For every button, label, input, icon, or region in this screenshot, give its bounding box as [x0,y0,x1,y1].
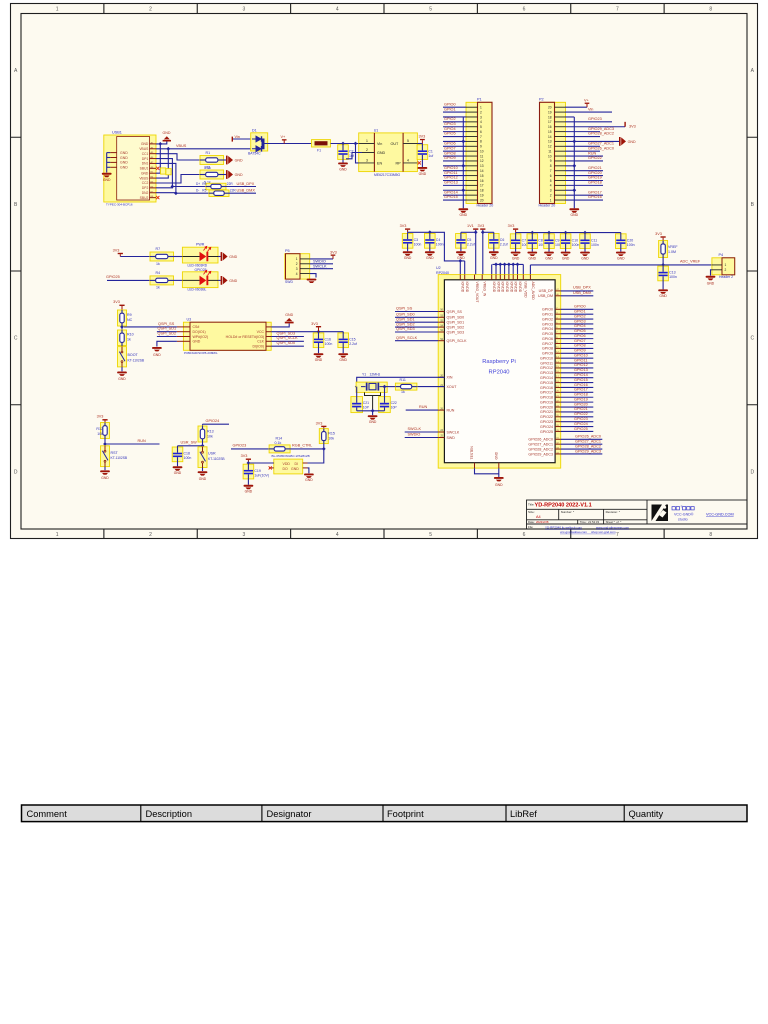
svg-text:4: 4 [550,184,552,188]
pin GPIO23 wire [555,421,561,423]
svg-text:11: 11 [480,154,484,158]
svg-text:13: 13 [548,140,552,144]
svg-text:F1: F1 [317,149,321,153]
svg-text:11: 11 [548,149,552,153]
svg-text:C: C [750,336,754,342]
svg-text:7: 7 [616,532,619,538]
wire RUN at U2 [406,409,439,411]
wire P2 gnd bus [573,117,575,208]
svg-text:2.2uf: 2.2uf [500,243,508,247]
svg-text:19: 19 [548,110,552,114]
svg-text:1k: 1k [156,286,160,290]
wire DN1/DN2 join to R5 [156,163,176,192]
svg-text:8: 8 [709,532,712,538]
pin stubs U1 [359,144,418,163]
wire IOVDD drop [491,264,493,274]
svg-text:GPIO12: GPIO12 [540,366,553,370]
wire IOVDD drop [508,264,510,274]
svg-text:C21: C21 [363,401,369,405]
svg-text:GND: GND [494,451,498,459]
svg-text:GND: GND [153,353,161,357]
svg-text:VREF: VREF [668,245,678,249]
pin GPIO18 wire [555,396,561,398]
svg-text:GND: GND [245,490,253,494]
svg-text:U2: U2 [436,266,441,270]
svg-text:R14: R14 [276,437,283,441]
ground at USB1 top [156,142,167,144]
svg-text:GND: GND [120,161,128,165]
wire P1 pin 5 [443,126,466,128]
pin IOVDD [464,275,466,280]
wire crystal case gnd [365,392,381,410]
header P1 [466,102,492,203]
svg-text:GND: GND [562,256,570,260]
ground arrow R2 [226,170,228,179]
wire P2 pin 13 gnd [565,140,619,142]
svg-text:Footprint: Footprint [387,809,424,819]
svg-text:GND: GND [118,377,126,381]
svg-text:vcc-gnd.taobao.com shop.vc: vcc-gnd.taobao.com shop.vcc-gnd.com [560,530,616,534]
svg-text:USB_DMX: USB_DMX [573,291,592,295]
svg-text:C20: C20 [627,238,633,242]
wire QSPI_SD3 at U2 [395,331,438,333]
wire PWR led to gnd [218,256,221,258]
svg-text:GND: GND [199,477,207,481]
svg-text:GPIO8: GPIO8 [574,344,586,348]
resistor R12 [101,423,110,439]
svg-text:5: 5 [550,179,552,183]
svg-text:QSPI_SD3: QSPI_SD3 [396,327,415,331]
svg-text:1k: 1k [156,262,160,266]
svg-text:GPIO13: GPIO13 [444,181,458,185]
wire P2 pin 5 [565,179,603,181]
svg-text:R3: R3 [202,182,206,186]
wire QSPI_SD3 from U3 [271,336,304,338]
svg-text:GPIO9: GPIO9 [574,349,586,353]
wire USB_DPX [226,186,256,188]
pin IOVDD [495,275,497,280]
svg-text:GPIO12: GPIO12 [574,363,588,367]
pin GPIO4 wire [555,328,561,330]
capacitor C9 [544,234,555,249]
svg-text:1: 1 [56,532,59,538]
svg-text:C3: C3 [414,238,419,242]
svg-text:VBUS: VBUS [139,147,149,151]
svg-text:1k: 1k [127,338,131,342]
wire P1 pin 18 [443,189,466,191]
svg-text:Date:: Date: [528,520,535,524]
svg-text:GPIO13: GPIO13 [574,368,588,372]
svg-text:GPIO22: GPIO22 [588,156,602,160]
svg-text:6: 6 [523,532,526,538]
svg-text:GND: GND [426,256,434,260]
svg-text:3: 3 [296,267,298,271]
wire led to gnd [218,279,221,281]
wire QSPI_SD0 from U3 [271,345,304,347]
svg-text:GPIO15: GPIO15 [444,195,458,199]
svg-text:Y1: Y1 [362,373,366,377]
svg-text:3V3: 3V3 [508,224,515,228]
svg-text:10P: 10P [363,405,370,409]
svg-text:100n: 100n [572,243,580,247]
capacitor C13 [658,266,669,281]
svg-text:IOVDD: IOVDD [505,282,509,293]
svg-text:GPIO22: GPIO22 [574,412,588,416]
svg-text:GPIO20: GPIO20 [574,402,588,406]
svg-text:DP2: DP2 [142,186,149,190]
svg-text:RP2040: RP2040 [489,370,510,376]
svg-text:GND: GND [377,151,386,155]
capacitor C10 [560,234,571,249]
svg-text:RP: RP [396,161,402,165]
wire R7 to PWR led [174,256,183,258]
sheet background [11,4,758,539]
svg-text:VBUS: VBUS [176,144,187,148]
wire QSPI_SS at U2 [395,311,438,313]
svg-text:QSPI_SD1: QSPI_SD1 [158,327,177,331]
svg-text:GPIO23: GPIO23 [574,417,588,421]
wire TESTEN to gnd [475,468,499,474]
svg-text:SWD: SWD [447,436,456,440]
power port 3V3 at U1 out [420,139,425,140]
svg-text:GPIO24: GPIO24 [574,422,588,426]
svg-text:5: 5 [480,125,482,129]
svg-text:GPIO13: GPIO13 [540,371,553,375]
pin GPIO25 wire [555,430,561,432]
svg-text:LibRef: LibRef [510,809,537,819]
wire U3 gnd pin [157,341,177,346]
svg-text:9: 9 [480,145,482,149]
wire P2 pin 8 gnd [565,165,574,167]
pin U3 right 346.2 [266,345,271,347]
svg-text:GPIO28_ADC2: GPIO28_ADC2 [588,132,614,136]
capacitor C15 [342,332,344,333]
wire R10 to BOOT [121,346,123,347]
wire P2 pin 3 gnd [565,189,574,191]
wire USR_SW node [202,442,204,447]
svg-text:C13: C13 [669,271,675,275]
svg-text:2: 2 [725,268,727,272]
wire U1 GND pin [346,153,362,159]
USB-C connector USB1 [104,135,156,202]
svg-text:2: 2 [550,193,552,197]
svg-text:16: 16 [548,125,552,129]
svg-text:SWCLK: SWCLK [408,427,422,431]
pin U3 GND [177,340,190,342]
svg-text:QSPI_SCLK: QSPI_SCLK [277,336,299,340]
svg-text:1: 1 [725,263,727,267]
svg-text:SWDIO: SWDIO [313,260,326,264]
svg-text:GPIO26_ADC0: GPIO26_ADC0 [588,146,614,150]
wire RST gnd [104,467,106,471]
wire RGB_CTRL [290,448,324,450]
svg-text:GPIO6: GPIO6 [574,334,586,338]
wire USR gnd [202,468,204,472]
svg-text:GND: GND [581,256,589,260]
pin USB_DP wire [555,290,561,292]
svg-text:3V3: 3V3 [311,322,318,326]
svg-text:V+: V+ [281,135,287,139]
pin QSPI_SD0 [438,316,444,318]
svg-text:GND: GND [229,255,237,259]
svg-text:LED-0603BL: LED-0603BL [188,288,207,292]
pin QSPI_SCLK [438,340,444,342]
svg-text:VCC-GND®: VCC-GND® [674,513,694,517]
svg-text:10P: 10P [391,405,398,409]
wire P1 pin 7 [443,136,466,138]
ground P2 bus [569,208,579,210]
svg-text:GND: GND [512,256,520,260]
resistor R14 [269,445,290,453]
svg-text:100n: 100n [669,275,677,279]
pin GPIO19 wire [555,401,561,403]
header P2 [540,102,566,203]
led PWR [182,247,218,263]
pin GPIO6 wire [555,338,561,340]
svg-text:100n: 100n [591,243,599,247]
pin GPIO29_ADC3 wire [555,453,561,455]
capacitor C22 right [379,397,391,413]
resistor R7 [150,252,174,261]
wire P2 pin 12 [565,145,600,147]
ground arrow GPIO25 led [221,276,223,285]
svg-text:R9: R9 [127,313,132,317]
resistor R3 [206,183,226,190]
svg-text:R10: R10 [127,333,134,337]
wire 3V3 bus C3 C4 [408,232,465,261]
ground USR [198,471,208,473]
capacitor C2 at U1 input [338,145,349,160]
svg-text:Header 20: Header 20 [539,204,556,208]
wire SWCLK [405,431,439,433]
svg-text:VREG_VOUT: VREG_VOUT [475,282,479,303]
title block [527,500,748,529]
svg-text:KT-1102SB: KT-1102SB [128,358,145,362]
svg-text:KT-1102SB: KT-1102SB [111,456,128,460]
svg-text:GPIO29_ADC3: GPIO29_ADC3 [575,449,601,453]
svg-text:GPIO18: GPIO18 [588,181,602,185]
crystal Y1 12MHz [356,382,387,392]
svg-text:GPIO24: GPIO24 [540,425,553,429]
svg-text:R4: R4 [156,271,161,275]
svg-text:3V3: 3V3 [113,248,120,252]
svg-text:19: 19 [480,193,484,197]
wire 3V3 bus right caps [516,232,621,234]
svg-text:6: 6 [550,174,552,178]
capacitor C19 [243,464,254,479]
svg-text:D: D [14,469,18,475]
svg-text:GPIO27_ADC1: GPIO27_ADC1 [575,439,601,443]
svg-text:GPIO16: GPIO16 [588,195,602,199]
svg-text:GPIO18: GPIO18 [540,396,553,400]
pin SWD [438,437,444,439]
svg-text:14: 14 [548,135,552,139]
svg-text:12MHz: 12MHz [370,373,381,377]
power port 3V3 at C7 [513,228,518,229]
wire P5 pin1 3V3 [310,258,333,260]
svg-text:USB_DMX: USB_DMX [237,189,256,193]
wire RGB gnd [308,468,309,473]
svg-text:ME6217C33M5G: ME6217C33M5G [374,173,401,177]
wire CC2 to R2 [156,175,200,184]
wire R1 to gnd [224,159,227,161]
svg-text:YD-RP2040.jlc.wellpcb.com: YD-RP2040.jlc.wellpcb.com [545,525,583,529]
svg-text:R13: R13 [207,429,214,433]
svg-text:GPIO26_ADC0: GPIO26_ADC0 [575,435,601,439]
svg-text:GPIO15: GPIO15 [574,378,588,382]
svg-text:GPIO21: GPIO21 [540,410,553,414]
svg-text:2: 2 [480,110,482,114]
wire SWDIO [405,437,439,439]
svg-text:Vin: Vin [377,142,382,146]
svg-text:GND: GND [315,358,323,362]
svg-text:Raspberry Pi: Raspberry Pi [482,359,516,365]
power port Vin [232,137,233,142]
mcu U2 RP2040 [438,275,561,469]
pin GPIO17 wire [555,391,561,393]
power port V+ [282,139,287,140]
flash U3 W25Q [183,322,271,350]
svg-text:Header 20: Header 20 [477,204,494,208]
resistor R13 [202,424,204,426]
svg-text:14: 14 [480,169,484,173]
svg-text:SBU1: SBU1 [140,167,149,171]
pin GPIO1 wire [555,313,561,315]
svg-text:C19: C19 [254,469,260,473]
wire P1 pin 8 [443,140,466,142]
pin IOVDD [504,275,506,280]
svg-text:QSPI_SD3: QSPI_SD3 [447,330,465,334]
logo texts [672,507,694,510]
pin GPIO11 wire [555,362,561,364]
svg-text:1: 1 [480,106,482,110]
svg-text:P1: P1 [477,98,482,102]
svg-text:GPIO16: GPIO16 [540,386,553,390]
resistor R9 [118,310,127,326]
wire 1V1 to C5 [461,231,476,233]
svg-text:D-: D- [196,189,199,193]
svg-text:Vin: Vin [588,107,593,111]
pin TESTEN [474,463,476,468]
ground P1 bus [458,208,468,210]
resistor R15 [319,429,328,444]
svg-text:0.1k: 0.1k [275,441,282,445]
svg-text:CS#: CS# [193,325,200,329]
svg-text:RUN: RUN [138,439,146,443]
svg-text:GPIO11: GPIO11 [574,358,587,362]
svg-text:2: 2 [296,262,298,266]
pin GPIO13 wire [555,372,561,374]
wire P1 pin 13 [443,165,466,167]
svg-text:GPIO1: GPIO1 [444,107,456,111]
svg-text:GPIO20: GPIO20 [588,171,602,175]
resistor R10 [118,330,127,346]
svg-text:R12: R12 [96,427,103,431]
wire ADC_AVDD riser [529,265,531,275]
wire IOVDD drop [512,264,514,274]
svg-text:GPIO24: GPIO24 [206,419,220,423]
wire P2 pin 17 [565,121,612,123]
svg-text:20: 20 [480,198,484,202]
svg-text:Description: Description [146,809,193,819]
svg-text:GND: GND [707,282,715,286]
svg-text:TYPEC-304-BCP16: TYPEC-304-BCP16 [106,202,133,206]
pin VREG_IN [481,275,483,280]
svg-text:15: 15 [480,174,484,178]
wire P2 pin 4 [565,184,603,186]
svg-text:17: 17 [480,184,484,188]
svg-text:1k: 1k [401,390,405,394]
svg-text:GPIO14: GPIO14 [574,373,588,377]
svg-text:studio: studio [678,518,688,522]
svg-text:GND: GND [460,213,468,217]
svg-text:BOOT: BOOT [128,353,139,357]
svg-text:IOVDD: IOVDD [461,282,465,293]
svg-text:GPIO29_ADC3: GPIO29_ADC3 [588,127,614,131]
svg-text:GPIO5: GPIO5 [574,329,586,333]
power port 3V3 at VREG_IN [480,228,485,229]
svg-text:10k: 10k [97,432,103,436]
svg-text:GPIO2: GPIO2 [444,117,456,121]
svg-text:File:: File: [528,525,534,529]
wire 3V3 to C6 [483,231,494,233]
svg-text:IOVDD: IOVDD [465,282,469,293]
resistor R5 [209,190,229,197]
svg-text:VBUS: VBUS [139,176,149,180]
svg-text:1uF(10V): 1uF(10V) [254,473,269,477]
wire P1 pin 20 [443,199,466,201]
wire P1 pin 3 [443,116,466,118]
wire F1 to U1 [331,143,359,145]
svg-text:7: 7 [616,6,619,12]
svg-text:Time: 21:52:33: Time: 21:52:33 [580,520,600,524]
svg-text:6: 6 [480,130,482,134]
wire IOVDD pins 1 2 [459,261,461,275]
wire USB gnd pin7 [156,144,160,173]
svg-text:QSPI_SD1: QSPI_SD1 [447,321,465,325]
pin GPIO7 wire [555,343,561,345]
svg-text:QSPI_SD2: QSPI_SD2 [158,331,177,335]
svg-text:3V3: 3V3 [478,224,485,228]
ground Y1 [372,411,374,415]
pin RUN [438,409,444,411]
svg-text:GPIO23: GPIO23 [540,420,553,424]
wire IOVDD drop [504,264,506,274]
svg-text:GPIO27_ADC1: GPIO27_ADC1 [528,442,553,446]
wire R15 to RGB data [323,444,325,449]
svg-text:GPIO10: GPIO10 [444,166,458,170]
wire P5 pin3 SWCLK [310,268,333,270]
svg-text:GPIO16: GPIO16 [574,383,588,387]
svg-text:CLK: CLK [257,340,264,344]
svg-text:SWCLK: SWCLK [447,430,460,434]
wire QSPI_SD1 at U2 [395,321,438,323]
power port V+ at P2 [586,104,588,107]
wire P1 pin 16 [443,179,466,181]
svg-text:9: 9 [550,159,552,163]
wire P2 pin 20 [565,106,587,108]
svg-text:5: 5 [407,139,409,143]
svg-text:QSPI_SS: QSPI_SS [447,310,463,314]
svg-text:GND: GND [235,173,243,177]
svg-text:C10: C10 [572,238,578,242]
pin ADC_AVDD [529,275,531,280]
wire P5 pin2 SWDIO [310,263,333,265]
wire VREG_VOUT [475,230,477,275]
svg-text:QSPI_SS: QSPI_SS [158,322,175,326]
svg-text:1: 1 [550,198,552,202]
svg-text:1: 1 [56,6,59,12]
